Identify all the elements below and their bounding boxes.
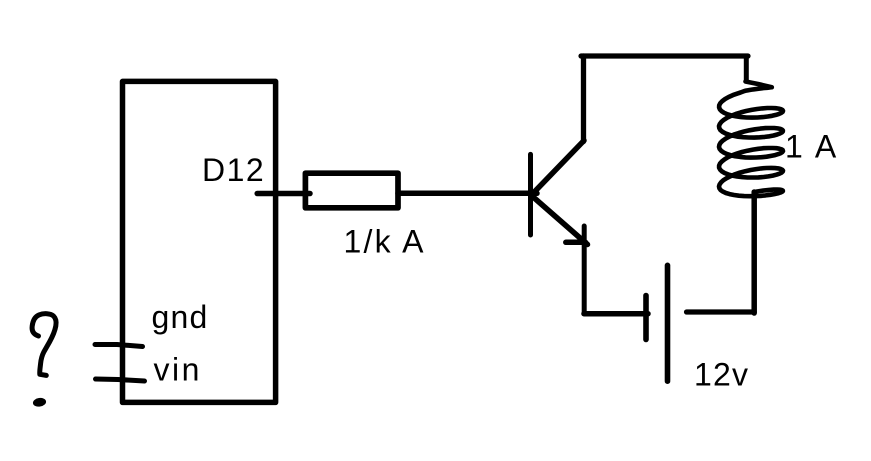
svg-text:D12: D12	[202, 152, 265, 188]
svg-text:vin: vin	[154, 352, 202, 388]
svg-text:gnd: gnd	[152, 299, 209, 335]
svg-text:1/k A: 1/k A	[344, 224, 426, 260]
svg-text:12v: 12v	[694, 357, 749, 393]
svg-text:1 A: 1 A	[785, 129, 839, 165]
